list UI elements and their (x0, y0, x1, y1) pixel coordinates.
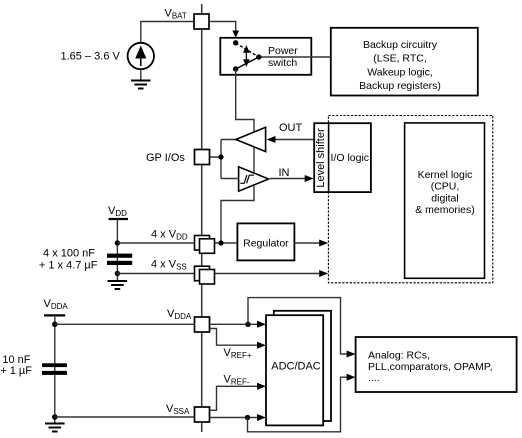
switch contact dashed (open) (236, 43, 259, 57)
VDD vertical wire (116, 219, 118, 281)
node VDDA/analog junction (245, 322, 250, 327)
node VSSA/analog junction (245, 415, 250, 420)
pin VSSA (195, 407, 210, 422)
svg-text:& memories): & memories) (415, 204, 475, 216)
ADC/DAC stack back box (274, 311, 331, 421)
regulator box (237, 223, 294, 260)
svg-text:Backup circuitry: Backup circuitry (363, 39, 438, 51)
svg-text:Analog: RCs,: Analog: RCs, (368, 350, 430, 362)
level shifter divider (328, 123, 330, 192)
svg-text:digital: digital (431, 192, 458, 204)
pin GP I/Os (195, 150, 210, 165)
ground (VDD cap) (108, 281, 128, 289)
node GP I/Os junction (218, 154, 223, 159)
svg-text:+ 1 µF: + 1 µF (0, 365, 32, 377)
wire GP I/Os pin to buffers (210, 140, 239, 179)
wire switch to backup box (261, 56, 331, 58)
wire 4xVSS left (117, 273, 194, 275)
level shifter / IO logic box (314, 123, 371, 192)
hysteresis symbol (240, 175, 254, 183)
switch toggle arrow (243, 45, 250, 67)
capacitor VDD decoupling (107, 254, 132, 258)
VDD rail symbol (109, 218, 129, 220)
switch contact solid (closed) (236, 57, 259, 69)
kernel logic box (405, 123, 485, 278)
svg-text:Power: Power (268, 45, 298, 57)
svg-text:Wakeup logic,: Wakeup logic, (367, 66, 433, 78)
input schmitt buffer (239, 167, 269, 191)
pin 4xVDD (195, 236, 210, 251)
svg-text:Level shifter: Level shifter (315, 128, 327, 188)
node VDD/cap junction (115, 240, 120, 245)
main supply rail (201, 4, 203, 432)
pin VBAT (194, 14, 209, 29)
VDDA vertical wire (54, 315, 56, 423)
wire VDDA (55, 323, 195, 325)
wire regulator to kernel (294, 242, 321, 244)
wire VSSA to ADC (210, 417, 260, 419)
current source V1 (128, 43, 154, 69)
svg-text:GP I/Os: GP I/Os (146, 152, 185, 164)
svg-text:1.65 – 3.6 V: 1.65 – 3.6 V (61, 51, 121, 63)
OUT wire (274, 139, 314, 141)
svg-text:Backup registers): Backup registers) (359, 80, 441, 92)
analog box (356, 337, 517, 392)
svg-text:....: .... (368, 372, 380, 384)
capacitor VDDA decoupling (42, 363, 67, 367)
switch node dots (233, 40, 238, 45)
svg-text:+ 1 x 4.7 µF: + 1 x 4.7 µF (39, 259, 98, 271)
wire source to ground (140, 69, 142, 80)
wire VSSA wrap to analog (248, 377, 349, 432)
backup circuitry box (331, 28, 478, 96)
wire switch to buffer supply and VDD (221, 69, 254, 243)
VDDA rail symbol (44, 314, 65, 316)
svg-text:(LSE, RTC,: (LSE, RTC, (373, 53, 426, 65)
node VSS/cap junction (115, 271, 120, 276)
dashed kernel container (328, 116, 492, 283)
svg-text:I/O logic: I/O logic (331, 152, 370, 164)
power switch box (220, 38, 311, 75)
svg-text:10 nF: 10 nF (2, 354, 30, 366)
svg-text:Kernel logic: Kernel logic (418, 169, 473, 181)
svg-text:ADC/DAC: ADC/DAC (271, 361, 321, 373)
wire VREF- (210, 386, 259, 410)
node regulator junction (218, 240, 223, 245)
wire 4xVSS to kernel (215, 273, 322, 275)
wire VDDA to ADC (210, 323, 260, 325)
ground (battery source) (131, 81, 151, 89)
wire VSSA (55, 416, 195, 418)
svg-text:IN: IN (279, 167, 290, 179)
node VDDA junction (52, 322, 58, 328)
wire VREF+ (210, 329, 259, 346)
svg-text:OUT: OUT (279, 122, 303, 134)
output buffer (236, 127, 266, 151)
svg-text:PLL,comparators, OPAMP,: PLL,comparators, OPAMP, (368, 361, 493, 373)
svg-text:switch: switch (268, 57, 297, 69)
IN wire (270, 178, 306, 180)
node VSSA junction (52, 414, 58, 420)
wire pin to regulator (215, 242, 238, 244)
wire VDDA wrap to analog (248, 298, 348, 354)
svg-text:(CPU,: (CPU, (431, 181, 460, 193)
ground (VDDA cap) (45, 424, 65, 432)
wire VBAT pin to current source (141, 22, 194, 44)
ADC/DAC front box (266, 315, 323, 425)
svg-text:Regulator: Regulator (243, 238, 289, 250)
wire VBAT pin to power switch (209, 22, 236, 32)
wire 4xVDD (117, 242, 194, 244)
pin VDDA (195, 317, 210, 332)
svg-text:4 x 100 nF: 4 x 100 nF (43, 248, 95, 260)
pin 4xVSS (195, 266, 210, 281)
